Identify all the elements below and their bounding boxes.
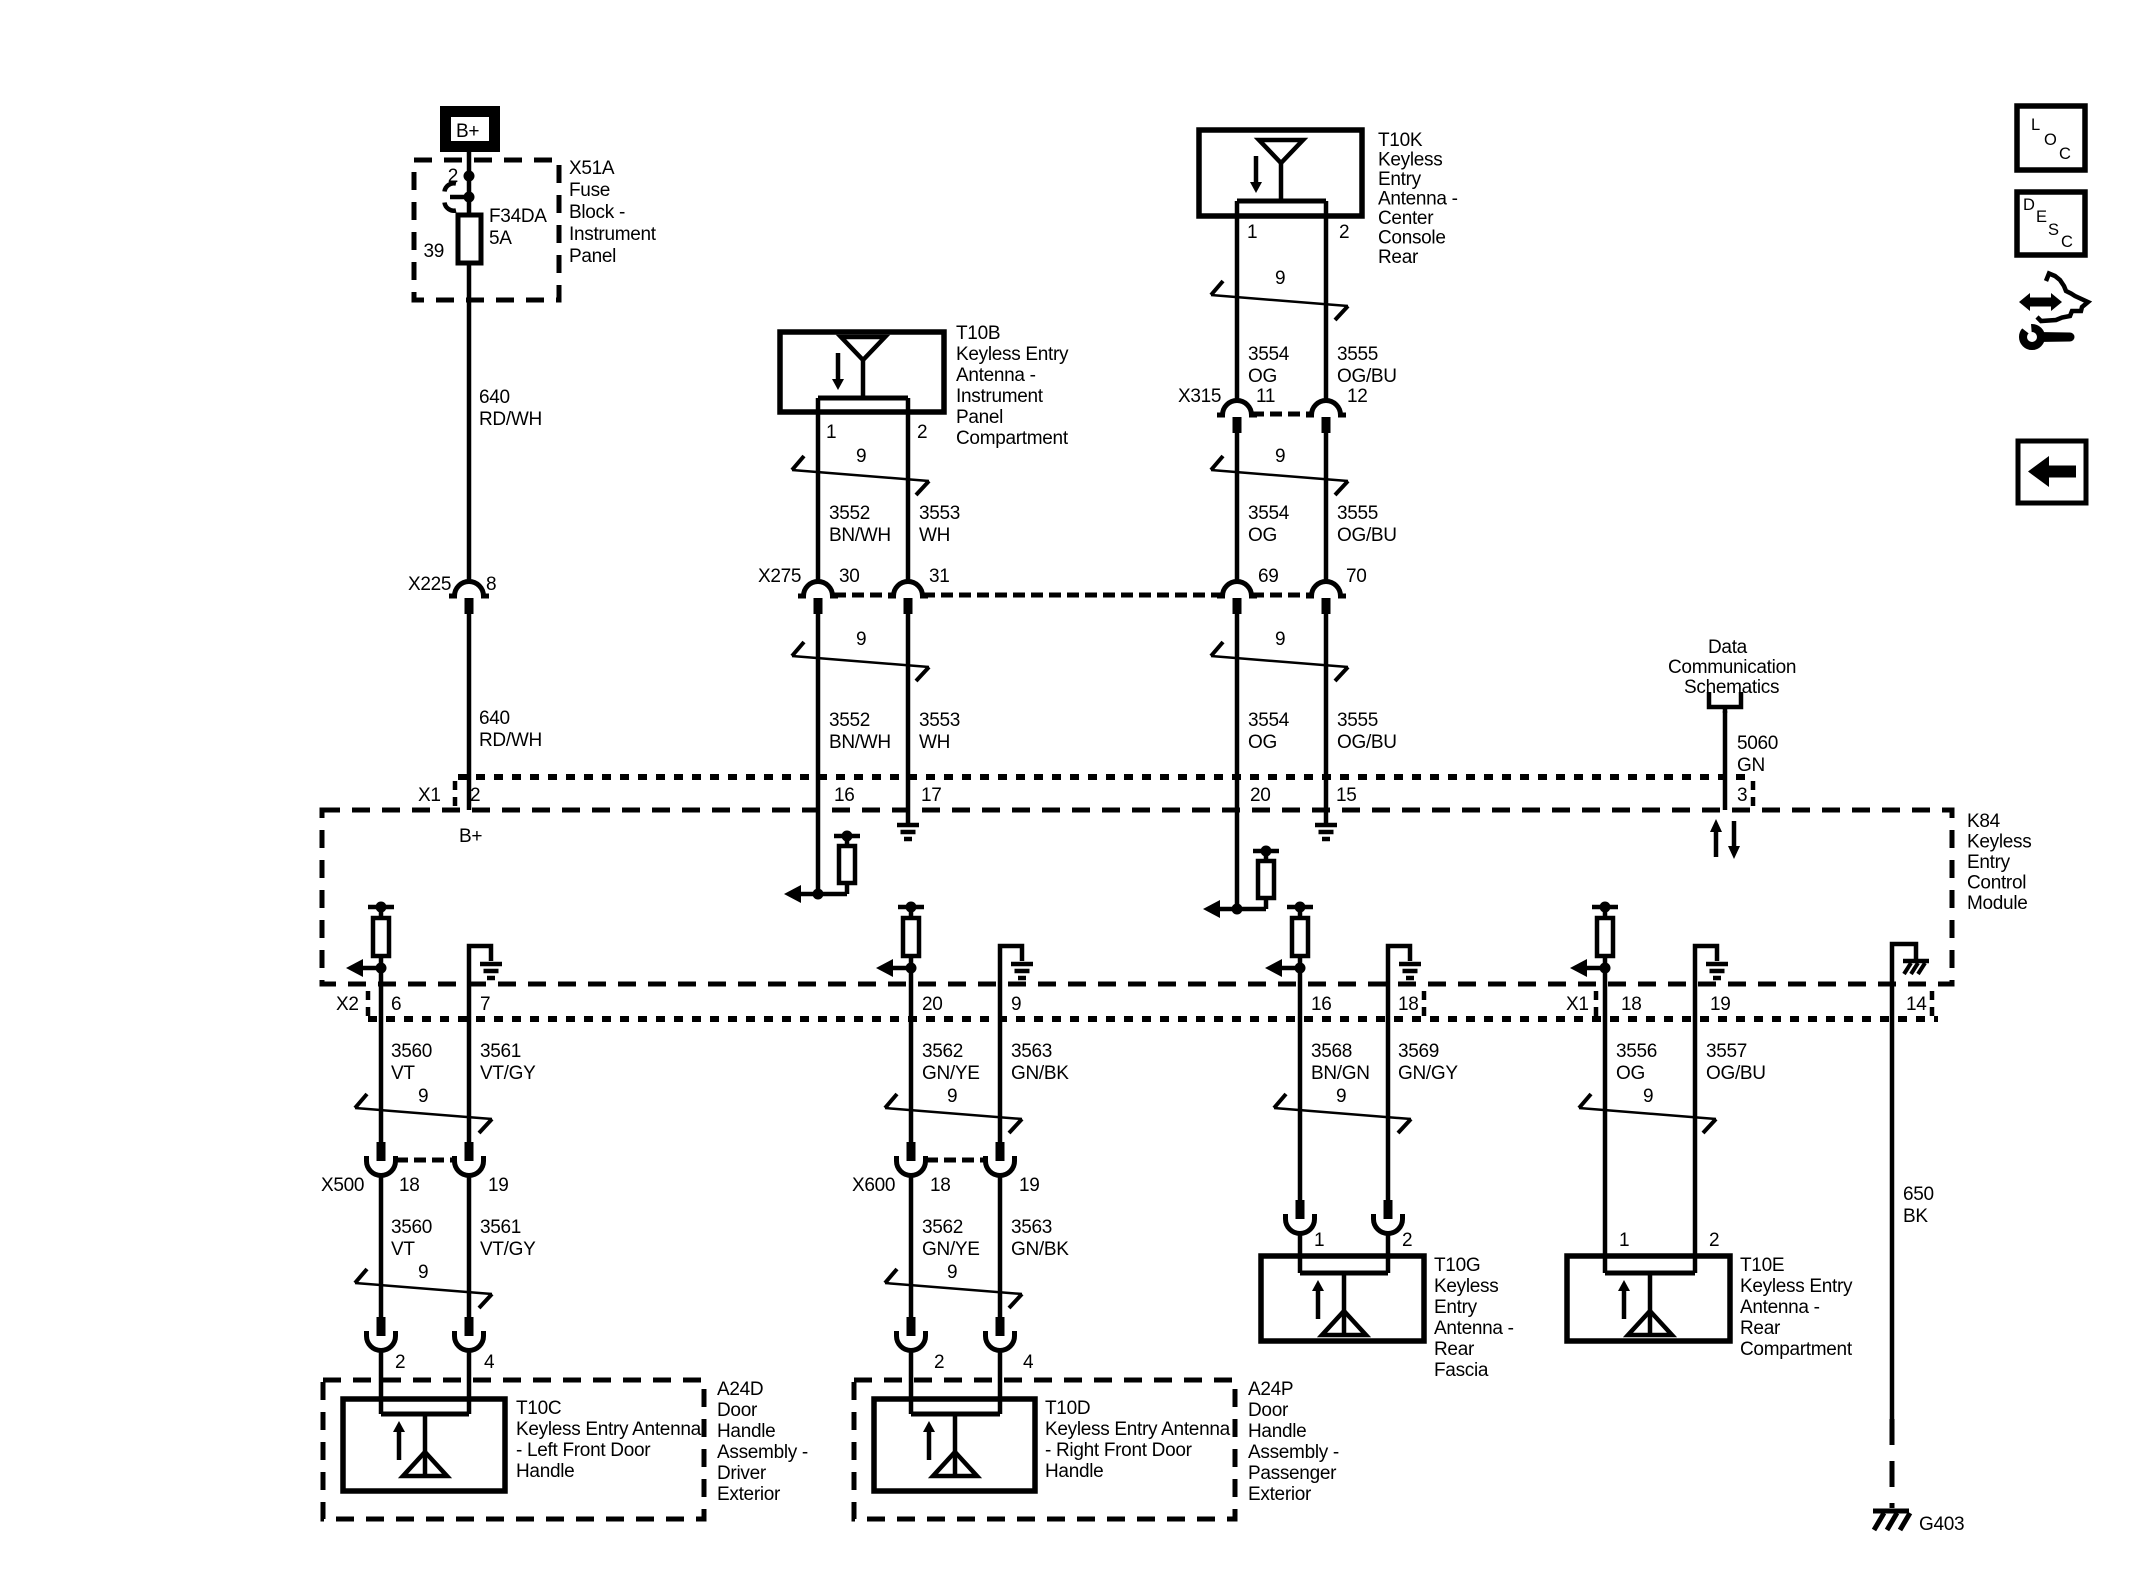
svg-text:9: 9 — [1275, 629, 1285, 650]
svg-text:1: 1 — [1314, 1230, 1324, 1251]
svg-text:S: S — [2048, 221, 2059, 239]
twisted pair passenger door lower — [885, 1262, 1022, 1308]
wire 3556 OG module to T10E — [1605, 984, 1657, 1273]
svg-text:2: 2 — [934, 1352, 944, 1373]
twisted pair driver door upper — [355, 1086, 492, 1133]
antenna T10B box — [780, 323, 1069, 449]
svg-text:20: 20 — [922, 994, 943, 1015]
wire 3569 GN/GY module to T10G — [1388, 984, 1458, 1200]
door handle assembly A24D dashed box — [323, 1379, 808, 1519]
wire 3563 GN/BK X600 to T10D — [1000, 1175, 1069, 1319]
svg-text:15: 15 — [1336, 785, 1357, 806]
module internal driver X1 pin 18 — [1570, 902, 1618, 985]
wire 3557 OG/BU module to T10E — [1695, 984, 1766, 1273]
svg-text:1: 1 — [826, 422, 836, 443]
connector T10G pin 2 — [1374, 1200, 1413, 1251]
wire 3554 OG to module pin 20 — [1237, 614, 1290, 810]
svg-text:11: 11 — [1256, 386, 1275, 407]
svg-text:2: 2 — [470, 785, 480, 806]
X1 label top row — [418, 781, 455, 811]
module internal antenna driver for T10B pin 16 — [784, 810, 860, 903]
svg-text:X600: X600 — [852, 1175, 895, 1196]
svg-text:9: 9 — [856, 629, 866, 650]
module internal ground pin 15 — [1315, 810, 1337, 839]
wire 3561 VT/GY module to X500 — [469, 984, 536, 1142]
svg-text:70: 70 — [1346, 566, 1367, 587]
twisted pair passenger door upper — [885, 1086, 1022, 1133]
module X1 top connector dotted row — [458, 774, 1747, 780]
svg-text:16: 16 — [834, 785, 855, 806]
svg-text:E: E — [2036, 208, 2047, 226]
svg-text:1: 1 — [1247, 222, 1257, 243]
connector T10D pin 4 — [986, 1317, 1035, 1373]
module internal antenna driver for T10K pin 20 — [1203, 810, 1279, 918]
connector T10G pin 1 — [1286, 1200, 1325, 1251]
svg-text:3: 3 — [1737, 785, 1747, 806]
icon back arrow box — [2018, 441, 2086, 503]
connector X275 pin 70 — [1306, 566, 1367, 614]
connector X315 pin 11 — [1178, 386, 1275, 433]
connector X500 pin 19 — [455, 1142, 509, 1196]
twisted pair rear fascia — [1274, 1086, 1411, 1133]
svg-text:X1: X1 — [1566, 994, 1589, 1015]
fuse block X51A dashed box — [414, 160, 559, 300]
svg-text:2: 2 — [917, 422, 927, 443]
svg-text:6: 6 — [391, 994, 401, 1015]
svg-text:B+: B+ — [459, 826, 482, 847]
svg-text:G403: G403 — [1919, 1514, 1964, 1535]
bus clip symbol in fuse block — [445, 183, 475, 210]
svg-text:30: 30 — [839, 566, 860, 587]
twisted pair T10K middle — [1211, 446, 1348, 495]
twisted pair T10B lower — [792, 629, 929, 681]
svg-text:9: 9 — [856, 446, 866, 467]
connector T10C pin 4 — [455, 1317, 496, 1373]
module internal hook ground X2 pin 18 — [1388, 946, 1421, 984]
svg-text:2: 2 — [395, 1352, 405, 1373]
module internal driver X2 pin 6 — [346, 902, 394, 985]
connector T10D pin 2 — [897, 1317, 945, 1373]
power symbol B+ box — [446, 112, 495, 147]
bottom connector dotted row — [368, 1016, 1938, 1022]
connector X500 dashed line — [396, 1158, 454, 1163]
X1 label bottom row — [1566, 991, 1596, 1017]
svg-text:5A: 5A — [489, 228, 512, 249]
svg-text:19: 19 — [1710, 994, 1731, 1015]
wire into T10C pin 2 — [379, 1350, 384, 1414]
svg-text:9: 9 — [1275, 446, 1285, 467]
svg-text:X1: X1 — [418, 785, 441, 806]
svg-text:F34DA: F34DA — [489, 206, 547, 227]
pin 1 of T10B — [818, 398, 836, 584]
svg-text:18: 18 — [1398, 994, 1419, 1015]
wire into T10G pin 1 — [1298, 1233, 1303, 1273]
connector X275 pin 31 — [888, 566, 950, 614]
wire B+ to fuse — [467, 152, 472, 215]
svg-text:18: 18 — [930, 1175, 951, 1196]
svg-text:12: 12 — [1347, 386, 1368, 407]
antenna T10C box — [343, 1398, 702, 1491]
wire 650 BK dashed part — [1890, 1419, 1895, 1508]
svg-text:19: 19 — [1019, 1175, 1040, 1196]
svg-text:31: 31 — [929, 566, 950, 587]
connector X275 pin 30 — [758, 566, 860, 614]
antenna T10G box — [1261, 1255, 1514, 1381]
svg-text:18: 18 — [399, 1175, 420, 1196]
connector X315 dashed line — [1252, 412, 1311, 417]
module internal driver X2 pin 16 — [1265, 902, 1313, 985]
node pin 2 of fuse block — [448, 166, 475, 187]
twisted pair T10K lower — [1211, 629, 1348, 681]
svg-text:X315: X315 — [1178, 386, 1221, 407]
twisted pair T10K upper — [1211, 268, 1348, 320]
pin 2 of T10K — [1326, 201, 1349, 403]
connector X315 pin 12 — [1306, 386, 1368, 433]
wire 640 RD/WH X225 to module X1 pin 2 — [469, 614, 542, 810]
icon service vehicle with arrow and wrench — [2014, 274, 2088, 347]
svg-text:C: C — [2061, 233, 2073, 251]
connector X225 pin 8 — [408, 574, 496, 614]
wire into T10C pin 4 — [467, 1350, 472, 1414]
wire 3554 OG X315 to X275 — [1237, 433, 1290, 584]
svg-text:9: 9 — [1336, 1086, 1346, 1107]
svg-text:9: 9 — [418, 1086, 428, 1107]
svg-text:L: L — [2031, 116, 2040, 134]
module internal driver X2 pin 20 — [876, 902, 924, 985]
connector X500 pin 18 — [321, 1142, 420, 1196]
svg-text:9: 9 — [418, 1262, 428, 1283]
connector X600 pin 18 — [852, 1142, 951, 1196]
wire 3555 OG/BU X315 to X275 — [1326, 433, 1397, 584]
wire 3562 GN/YE module to X600 — [911, 984, 980, 1142]
connector X600 dashed line — [926, 1158, 985, 1163]
module K84 dashed box — [322, 810, 2031, 984]
off-page connector symbol — [1709, 692, 1741, 713]
pin 3 label — [1737, 781, 1753, 811]
wire 640 RD/WH fuse to X225 — [469, 263, 542, 584]
wire into T10G pin 2 — [1386, 1233, 1391, 1273]
svg-text:9: 9 — [947, 1086, 957, 1107]
svg-text:B+: B+ — [456, 121, 479, 142]
pin 2 of T10B — [908, 398, 927, 584]
svg-text:C: C — [2059, 145, 2071, 163]
data arrows inside module at pin 3 — [1710, 819, 1740, 859]
svg-text:9: 9 — [1011, 994, 1021, 1015]
svg-text:4: 4 — [1023, 1352, 1034, 1373]
antenna T10E box — [1567, 1255, 1853, 1360]
svg-text:O: O — [2044, 131, 2057, 149]
wire 3552 BN/WH to module pin 16 — [818, 614, 891, 810]
svg-text:9: 9 — [947, 1262, 957, 1283]
antenna T10D box — [874, 1398, 1231, 1491]
module internal hook ground X2 pin 9 — [1000, 946, 1033, 984]
svg-text:2: 2 — [1402, 1230, 1412, 1251]
twisted pair rear compartment — [1579, 1086, 1716, 1133]
pin 1 of T10K — [1237, 201, 1257, 403]
svg-text:X2: X2 — [336, 994, 359, 1015]
wire into T10D pin 4 — [998, 1350, 1003, 1414]
fuse F34DA 5A — [423, 206, 547, 263]
svg-text:4: 4 — [484, 1352, 495, 1373]
svg-text:19: 19 — [488, 1175, 509, 1196]
wire 3563 GN/BK module to X600 — [1000, 984, 1069, 1142]
svg-text:2: 2 — [1339, 222, 1349, 243]
svg-text:69: 69 — [1258, 566, 1279, 587]
svg-text:X275: X275 — [758, 566, 801, 587]
svg-text:14: 14 — [1906, 994, 1927, 1015]
connector T10C pin 2 — [367, 1317, 406, 1373]
svg-text:X225: X225 — [408, 574, 451, 595]
svg-text:18: 18 — [1621, 994, 1642, 1015]
connector X275 dashed line — [834, 593, 1311, 598]
svg-text:16: 16 — [1311, 994, 1332, 1015]
svg-text:2: 2 — [1709, 1230, 1719, 1251]
module internal ground pin 17 — [897, 810, 919, 839]
wire 3562 GN/YE X600 to T10D — [911, 1175, 980, 1319]
module internal hook ground X2 pin 7 — [469, 946, 502, 984]
wire 3561 VT/GY X500 to T10C — [469, 1175, 536, 1319]
wire 3555 OG/BU to module pin 15 — [1326, 614, 1397, 810]
svg-text:9: 9 — [1275, 268, 1285, 289]
pin 14 label — [1906, 991, 1932, 1017]
svg-text:20: 20 — [1250, 785, 1271, 806]
module internal hook ground X1 pin 19 — [1695, 946, 1728, 984]
wire 3560 VT module to X500 — [381, 984, 432, 1142]
svg-text:9: 9 — [1643, 1086, 1653, 1107]
wire 650 BK solid part — [1892, 984, 1934, 1419]
twisted pair T10B upper — [792, 446, 929, 495]
twisted pair driver door lower — [355, 1262, 492, 1308]
ground G403 — [1873, 1511, 1964, 1535]
X2 label bottom row — [336, 991, 368, 1017]
svg-text:17: 17 — [921, 785, 942, 806]
svg-text:7: 7 — [480, 994, 490, 1015]
wire 3560 VT X500 to T10C — [381, 1175, 432, 1319]
svg-text:X500: X500 — [321, 1175, 364, 1196]
icon LOC box — [2017, 106, 2085, 170]
antenna T10K box — [1199, 130, 1458, 268]
wire 5060 GN — [1725, 711, 1778, 810]
module internal chassis ground pin 14 — [1892, 944, 1929, 984]
wire into T10D pin 2 — [909, 1350, 914, 1414]
svg-text:D: D — [2023, 196, 2035, 214]
wire 3553 WH to module pin 17 — [908, 614, 960, 810]
icon DESC box — [2017, 192, 2085, 255]
connector X600 pin 19 — [986, 1142, 1040, 1196]
svg-text:1: 1 — [1619, 1230, 1629, 1251]
connector X275 pin 69 — [1217, 566, 1279, 614]
door handle assembly A24P dashed box — [854, 1379, 1339, 1519]
svg-text:39: 39 — [423, 241, 444, 262]
svg-text:8: 8 — [486, 574, 496, 595]
wire 3568 BN/GN module to T10G — [1300, 984, 1370, 1200]
pin 18 label bottom — [1398, 991, 1424, 1017]
